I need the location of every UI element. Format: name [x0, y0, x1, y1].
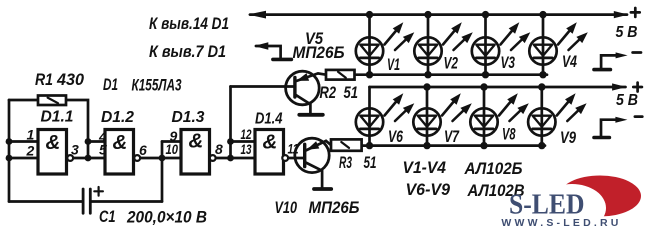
svg-text:200,0×10 В: 200,0×10 В — [126, 208, 207, 226]
svg-text:К выв.7 D1: К выв.7 D1 — [149, 42, 226, 61]
svg-text:V6: V6 — [388, 128, 404, 146]
svg-text:АЛ102Б: АЛ102Б — [464, 160, 523, 178]
svg-text:12: 12 — [241, 126, 252, 142]
svg-text:51: 51 — [344, 84, 359, 102]
svg-text:5 В: 5 В — [616, 92, 638, 109]
svg-text:5: 5 — [99, 142, 107, 158]
svg-text:V7: V7 — [444, 128, 460, 146]
svg-text:6: 6 — [139, 142, 147, 158]
svg-text:51: 51 — [364, 154, 377, 172]
svg-text:D1: D1 — [103, 76, 118, 94]
svg-text:430: 430 — [56, 70, 84, 89]
svg-text:R3: R3 — [339, 154, 352, 172]
svg-text:3: 3 — [71, 142, 79, 158]
svg-text:C1: C1 — [99, 208, 116, 226]
svg-text:11: 11 — [288, 141, 299, 157]
svg-text:D1.2: D1.2 — [101, 109, 134, 126]
svg-text:1: 1 — [27, 127, 35, 143]
svg-text:S-LED: S-LED — [509, 188, 585, 220]
svg-text:V1: V1 — [387, 56, 400, 74]
svg-text:D1.1: D1.1 — [41, 109, 74, 126]
svg-text:13: 13 — [241, 141, 252, 157]
svg-text:V2: V2 — [444, 55, 459, 73]
svg-text:8: 8 — [215, 141, 223, 157]
svg-text:&: & — [46, 131, 61, 154]
svg-text:V10: V10 — [275, 198, 298, 217]
svg-text:2: 2 — [26, 143, 35, 159]
svg-text:R1: R1 — [35, 70, 53, 89]
svg-text:V9: V9 — [560, 129, 577, 147]
svg-text:&: & — [113, 131, 128, 154]
svg-text:V6-V9: V6-V9 — [406, 181, 451, 199]
svg-text:К155ЛА3: К155ЛА3 — [132, 76, 182, 94]
svg-text:5 В: 5 В — [616, 24, 638, 41]
svg-text:К выв.14 D1: К выв.14 D1 — [149, 14, 229, 33]
svg-text:&: & — [263, 131, 278, 154]
svg-text:V4: V4 — [562, 53, 577, 71]
svg-text:10: 10 — [166, 141, 179, 157]
svg-text:&: & — [189, 130, 204, 153]
svg-text:V1-V4: V1-V4 — [403, 159, 447, 177]
svg-text:МП26Б: МП26Б — [309, 198, 360, 217]
svg-text:R2: R2 — [320, 84, 337, 102]
svg-text:V8: V8 — [502, 126, 516, 144]
svg-text:D1.3: D1.3 — [172, 109, 205, 126]
svg-text:МП26Б: МП26Б — [293, 44, 345, 62]
svg-text:WWW.S-LED.RU: WWW.S-LED.RU — [501, 217, 621, 229]
svg-text:V3: V3 — [501, 54, 516, 72]
svg-text:D1.4: D1.4 — [255, 111, 283, 128]
